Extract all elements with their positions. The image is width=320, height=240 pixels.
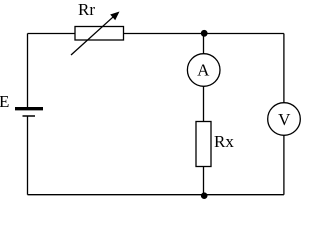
svg-text:E: E xyxy=(0,92,9,111)
svg-text:V: V xyxy=(278,110,291,129)
svg-text:A: A xyxy=(197,60,210,79)
svg-text:Rx: Rx xyxy=(214,132,234,151)
svg-text:Rr: Rr xyxy=(78,0,95,19)
